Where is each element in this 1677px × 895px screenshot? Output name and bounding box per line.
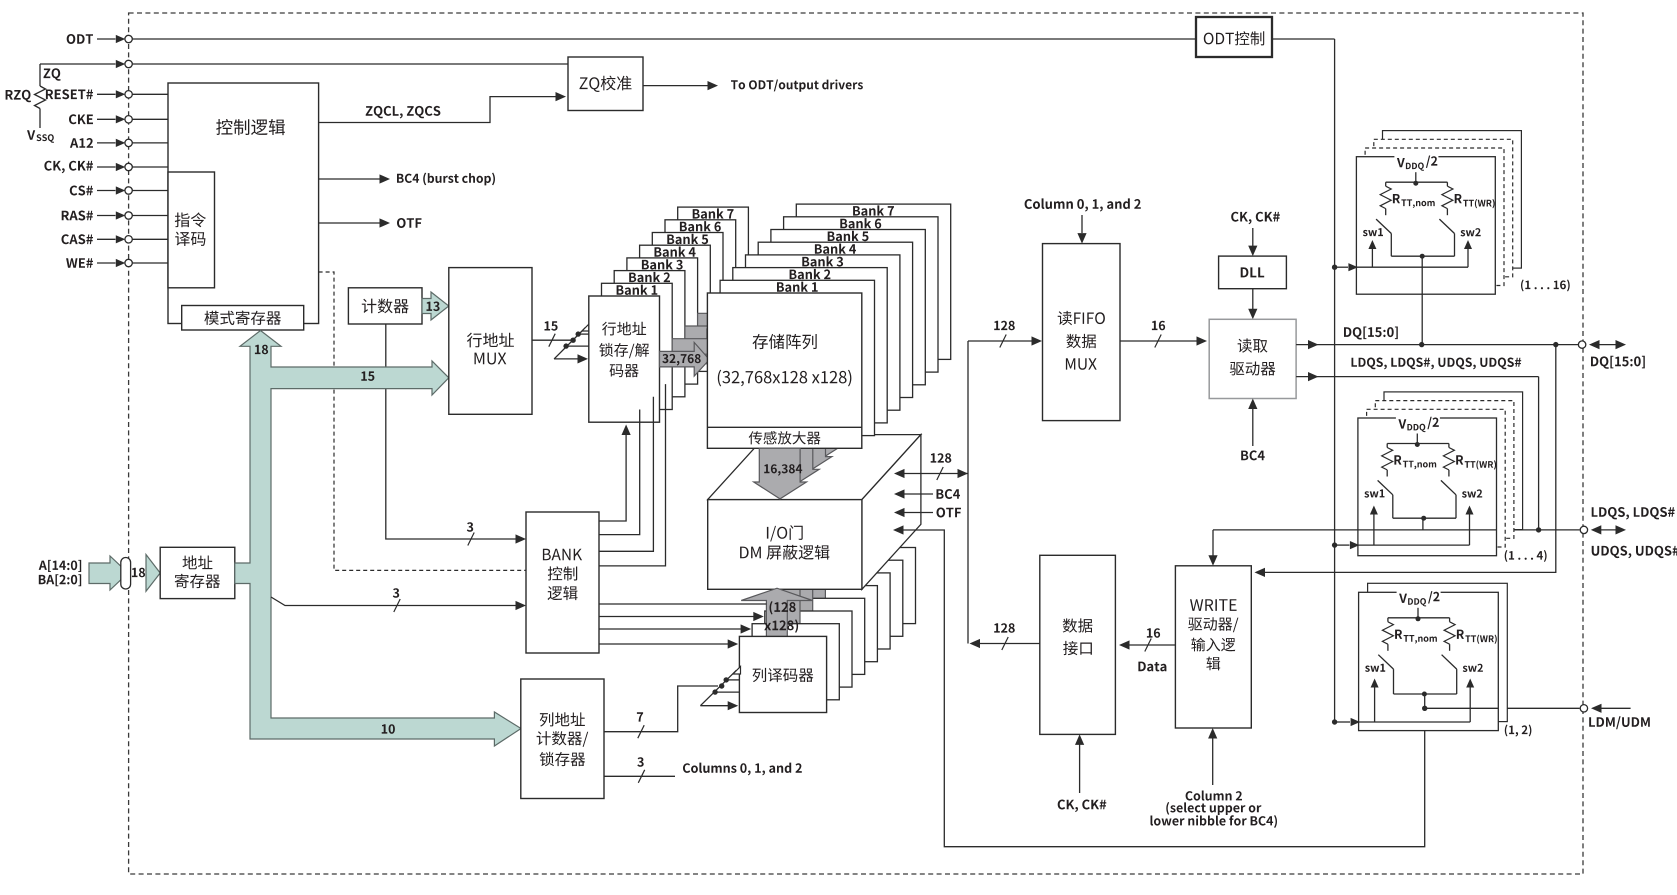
wire pin to control logic y=119 <box>132 118 168 120</box>
data bus arrow 16,384 (sense amps to I/O gating) <box>754 448 807 499</box>
external resistor RZQ <box>44 68 61 80</box>
wire 16 Data write drivers to data interface <box>1127 644 1175 646</box>
input pin A12 <box>70 138 93 148</box>
wire pin to control logic y=190 <box>132 190 168 192</box>
sense amplifier strip 传感放大器 <box>707 426 861 428</box>
wire pin to control logic y=94 <box>132 93 168 95</box>
mode register block 模式寄存器 <box>182 306 304 331</box>
row latch and memory bank stacks Bank1-7 <box>678 207 749 333</box>
column bus arrow (128 x128) <box>741 588 812 648</box>
input pin ZQ <box>40 63 116 65</box>
input Column 0,1,and 2 to read FIFO <box>1025 198 1141 211</box>
bus arrow 13 (counter to row address MUX) <box>422 292 449 320</box>
wire address register to bank control (3) <box>271 597 516 606</box>
wire 128 write data from data interface <box>972 643 1040 645</box>
wire DM mask into I/O gating <box>893 525 904 534</box>
address bus trunk with branches 18/15/10 <box>235 331 521 747</box>
ZQ calibration block ZQ校准 <box>568 57 643 111</box>
vertical 128-bit data bus <box>967 341 969 644</box>
input pin CKE <box>69 114 93 124</box>
ODT termination network (1 . . . 4) <box>1350 392 1523 556</box>
row address fan-out to banks <box>554 328 585 359</box>
wire counter to bank control (3) <box>386 324 516 539</box>
column address fan-out to banks <box>700 670 736 706</box>
input pin RAS# <box>62 211 93 221</box>
DLL block <box>1219 256 1287 289</box>
input pin CAS# <box>62 234 94 244</box>
wire pin to control logic y=215 <box>132 215 168 217</box>
address register block 地址寄存器 <box>160 547 235 598</box>
wires bank control to column decoder stack <box>599 603 766 605</box>
row address MUX block 行地址MUX <box>449 268 532 415</box>
wire 128 to read FIFO <box>968 340 1032 342</box>
output BC4 (burst chop) <box>319 178 380 180</box>
write drivers / input logic block WRITE驱动器/输入逻辑 <box>1175 566 1251 728</box>
bank control logic block BANK控制逻辑 <box>526 512 599 653</box>
read drivers block 读取驱动器 <box>1209 319 1296 398</box>
wire ODT net (pin to ODT control to termination column) <box>132 38 1196 40</box>
pad LDQS/UDQS <box>1580 526 1587 533</box>
wire ZQCL, ZQCS (control logic to ZQ calibration) <box>319 97 556 123</box>
wires bank control to row latch stack <box>599 432 626 521</box>
command decode block 指令译码 <box>168 172 215 288</box>
address input bus A[14:0] BA[2:0] <box>39 560 81 572</box>
dashed wire control logic to bank control <box>319 272 526 570</box>
input pin WE# <box>66 258 93 268</box>
read FIFO data MUX block 读FIFO数据MUX <box>1043 244 1121 421</box>
wire DQS net to write drivers <box>1213 529 1580 531</box>
wire to ODT/output drivers <box>643 85 708 87</box>
bus 128 I/O gating to read/write bus <box>894 469 905 478</box>
memory array block 存储阵列 <box>707 293 861 448</box>
ODT termination network (1 . . . 16) <box>1348 131 1521 295</box>
input BC4 to read drivers <box>1252 409 1254 447</box>
input OTF to I/O gating <box>894 508 905 517</box>
input pin RESET# <box>46 89 93 99</box>
wire 16 read FIFO to read drivers <box>1120 340 1197 342</box>
wire DM net crossing termination box <box>1425 707 1499 709</box>
input pin CK, CK# <box>44 161 93 174</box>
wire DQ branch to write drivers <box>1256 345 1556 573</box>
ODT termination network (1, 2) <box>1351 583 1508 730</box>
column decoder bank stack with data bus arrows <box>830 499 901 559</box>
column address counter/latch block 列地址计数器/锁存器 <box>521 679 604 799</box>
wire columns 0,1,2 (3) <box>604 775 675 777</box>
wire DLL to read drivers <box>1252 289 1254 309</box>
data interface block 数据接口 <box>1040 555 1116 734</box>
input pin ODT <box>67 34 93 44</box>
output OTF <box>319 222 380 224</box>
wire pin to control logic y=239 <box>132 238 168 240</box>
pad LDM/UDM <box>1580 705 1587 712</box>
wire DQS read drivers to DQS pads <box>1296 376 1539 378</box>
wire column counter to column decoder (7) <box>604 686 718 732</box>
input pin CS# <box>70 186 93 196</box>
wire row MUX to row latch (15) <box>532 339 571 341</box>
wire DQ[15:0] read drivers to DQ pads <box>1296 344 1578 346</box>
control logic block 控制逻辑 <box>168 83 319 324</box>
wires ODT control to termination switches <box>1335 266 1348 268</box>
wire DM net LDM/UDM <box>1425 707 1580 709</box>
row address latch/decoder block 行地址锁存/解码器 <box>589 296 660 422</box>
column decoder block 列译码器 <box>739 636 826 712</box>
input Column 2 select to write drivers <box>1212 738 1214 785</box>
input CK, CK# to data interface <box>1079 745 1081 794</box>
wire DQS net crossing termination box <box>1358 529 1497 531</box>
input CK, CK# to DLL <box>1231 212 1280 225</box>
wire pin to control logic y=167 <box>132 166 168 168</box>
input BC4 to I/O gating <box>894 489 905 498</box>
wire ZQ pin to ZQ calibration <box>132 63 568 65</box>
wire pin to control logic y=263 <box>132 262 168 264</box>
row bus arrow 32,768 <box>660 342 710 376</box>
wire pin to control logic y=142 <box>132 142 168 144</box>
counter block 计数器 <box>348 288 422 324</box>
ground VSSQ <box>27 130 35 140</box>
pad DQ[15:0] <box>1578 341 1585 348</box>
I/O gating DM mask logic block I/O门 DM屏蔽逻辑 <box>708 435 921 500</box>
ODT control block ODT控制 <box>1196 17 1272 57</box>
